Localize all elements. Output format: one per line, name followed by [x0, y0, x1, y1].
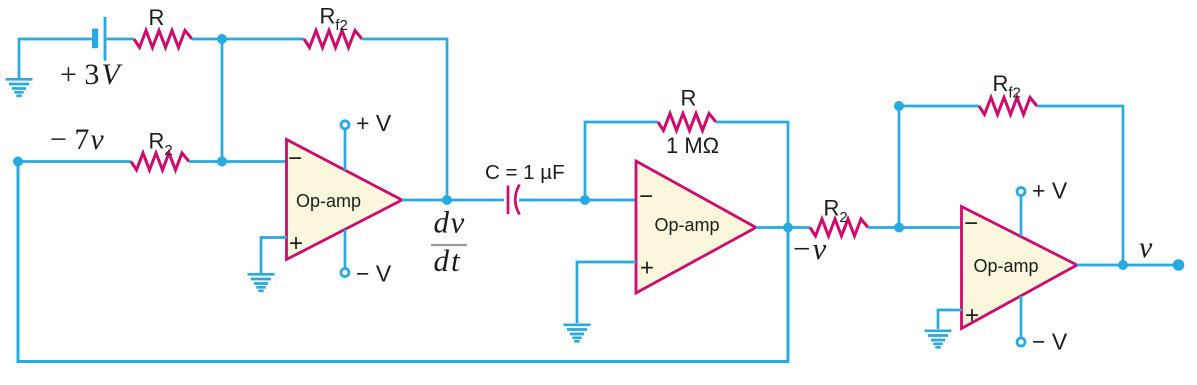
svg-text:−: −	[964, 210, 978, 237]
resistor R (U2 feedback, 1 Mohm)	[658, 114, 716, 131]
op-amp U3	[962, 207, 1078, 329]
wire U3 output	[1077, 264, 1178, 267]
svg-text:+ V: + V	[1032, 178, 1068, 204]
wire U1 -V stub	[344, 230, 347, 270]
wire node A vertical	[221, 39, 224, 162]
wire feedback bottom rail	[18, 162, 788, 362]
wire U1 noninverting input to ground	[261, 238, 287, 274]
svg-text:−v: −v	[793, 231, 826, 266]
terminal U1 +V	[341, 121, 349, 129]
svg-text:− V: − V	[1032, 329, 1068, 355]
svg-text:dt: dt	[434, 243, 462, 278]
wire U1 output	[402, 199, 504, 202]
wire U2 output	[756, 226, 810, 229]
wire R to node A and on to Rf2	[192, 38, 304, 41]
svg-text:R: R	[681, 86, 697, 111]
node U2 output junction	[783, 223, 793, 233]
node A (top junction)	[217, 34, 227, 44]
ground (U1)	[248, 274, 275, 291]
svg-text:dv: dv	[434, 205, 466, 240]
wire R2 to U3 inverting input	[868, 226, 962, 229]
wire battery to resistor R	[106, 38, 134, 41]
wire U1 +V stub	[344, 128, 347, 171]
resistor Rf2 (op-amp U1 feedback)	[304, 31, 362, 48]
resistor R2 (U3 input)	[810, 219, 868, 236]
svg-text:Rf2: Rf2	[320, 4, 348, 35]
ground (U2)	[564, 325, 591, 342]
node E (feedback top junction)	[894, 101, 904, 111]
node B (junction below node A)	[217, 157, 227, 167]
node U1 output junction	[442, 195, 452, 205]
wire U3 +V stub	[1020, 195, 1023, 236]
svg-text:+ V: + V	[356, 110, 392, 136]
svg-text:+: +	[640, 255, 654, 282]
svg-text:Op-amp: Op-amp	[654, 215, 719, 235]
op-amp U2	[636, 161, 756, 293]
wire input to R2	[18, 160, 131, 163]
node U3 output junction	[1118, 260, 1128, 270]
svg-text:R: R	[149, 5, 165, 30]
wire U2 feedback right vertical	[716, 122, 788, 228]
wire R2 to U1 inverting input	[189, 160, 287, 163]
node D (R2/feedback junction)	[894, 223, 904, 233]
wire U3 feedback left vertical	[899, 106, 979, 228]
node C (cap output junction)	[580, 195, 590, 205]
label dv/dt	[434, 205, 466, 279]
input node -7v terminal	[13, 157, 23, 167]
ground (U3)	[925, 331, 952, 348]
svg-text:+: +	[965, 302, 979, 329]
wire U2 feedback left vertical	[585, 122, 658, 200]
resistor R2 (U1 input)	[131, 153, 189, 170]
resistor R	[134, 31, 192, 48]
wire U3 noninverting input to ground	[938, 310, 962, 329]
svg-text:R2: R2	[149, 129, 173, 160]
battery +3V cell	[92, 17, 106, 61]
svg-text:C = 1 µF: C = 1 µF	[485, 161, 565, 184]
wire capacitor to U2 inverting input	[519, 199, 636, 202]
ground (battery branch)	[6, 79, 33, 96]
output terminal node	[1173, 259, 1185, 271]
wire Rf2 to U3 output	[1037, 106, 1123, 265]
resistor Rf2 (U3 feedback)	[979, 98, 1037, 115]
terminal U1 -V	[341, 269, 349, 277]
wire U3 -V stub	[1020, 296, 1023, 339]
terminal U3 -V	[1017, 338, 1025, 346]
op-amp U1	[287, 140, 403, 260]
capacitor C1	[508, 185, 520, 215]
svg-text:−: −	[639, 183, 653, 210]
svg-text:v: v	[1139, 231, 1153, 264]
svg-text:− V: − V	[356, 261, 392, 287]
svg-text:+: +	[289, 230, 303, 257]
svg-text:Op-amp: Op-amp	[296, 191, 361, 211]
svg-text:−: −	[288, 145, 302, 172]
wire battery left lead to ground	[19, 39, 92, 78]
svg-text:+ 3V: + 3V	[60, 58, 123, 91]
svg-text:Op-amp: Op-amp	[973, 256, 1038, 276]
terminal U3 +V	[1017, 188, 1025, 196]
svg-text:− 7v: − 7v	[50, 123, 104, 156]
svg-text:1 MΩ: 1 MΩ	[666, 133, 719, 158]
wire U2 noninverting input to ground	[577, 262, 636, 323]
svg-text:Rf2: Rf2	[993, 71, 1021, 102]
wire Rf2 to U1 output node	[362, 39, 447, 200]
